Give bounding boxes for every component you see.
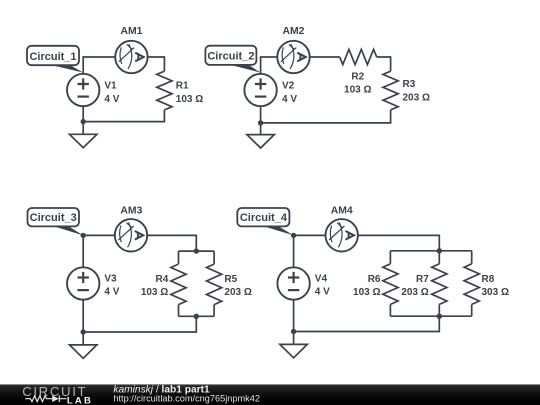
svg-text:4 V: 4 V <box>315 286 330 297</box>
voltage source V2 <box>244 74 276 106</box>
svg-text:Circuit_2: Circuit_2 <box>207 51 254 63</box>
svg-text:R5: R5 <box>224 274 237 285</box>
svg-text:103 Ω: 103 Ω <box>176 94 203 105</box>
wire parallel top bar C3 <box>179 250 215 252</box>
wire R5 top stub <box>213 251 215 264</box>
net flag Circuit_2 <box>205 46 260 73</box>
resistor R6 <box>383 264 398 305</box>
voltage source V4 <box>277 267 309 299</box>
wire R2 to R3 <box>377 57 391 71</box>
wire R5 bottom stub <box>213 305 215 317</box>
logo resistor-diode line <box>25 395 66 402</box>
wire AM2 to R2 <box>310 56 340 58</box>
svg-text:V2: V2 <box>282 81 295 92</box>
node C2 ground junction <box>258 120 263 125</box>
ammeter AM2 <box>277 41 309 73</box>
wire R7 top stub <box>438 251 440 264</box>
svg-text:Circuit_3: Circuit_3 <box>30 212 77 224</box>
wire node to AM3 <box>83 234 115 236</box>
ground C2 <box>247 135 274 148</box>
svg-text:4 V: 4 V <box>104 94 119 105</box>
wire parallel bottom bar C4 <box>390 315 471 317</box>
wire R8 bottom stub <box>471 304 473 316</box>
net flag Circuit_1 <box>27 46 83 73</box>
svg-text:R6: R6 <box>368 274 381 285</box>
net flag Circuit_3 <box>28 208 84 235</box>
wire AM3 to parallel top C3 <box>147 235 196 251</box>
svg-text:AM3: AM3 <box>120 205 142 216</box>
wire V3 bottom to ground C3 <box>82 300 84 345</box>
svg-text:R2: R2 <box>351 71 364 82</box>
wire parallel bottom to rail C4 <box>294 316 440 331</box>
wire parallel bottom to rail C3 <box>83 316 196 332</box>
wire R6 top stub <box>389 251 391 264</box>
ground C1 <box>70 134 97 147</box>
resistor R7 <box>432 264 447 305</box>
wire node to AM4 <box>294 234 326 236</box>
node C1 ground junction <box>81 119 86 124</box>
wire V1 bottom to ground C1 <box>82 106 84 134</box>
ground C4 <box>280 344 307 357</box>
svg-text:203 Ω: 203 Ω <box>224 287 251 298</box>
svg-text:R1: R1 <box>176 81 189 92</box>
svg-text:V4: V4 <box>315 273 328 284</box>
wire V4 top wire <box>293 235 295 267</box>
svg-text:LAB: LAB <box>67 396 93 405</box>
resistor R8 <box>464 264 479 305</box>
node C3 ground junction <box>81 329 86 334</box>
wire V4 bottom to ground C4 <box>293 300 295 345</box>
ammeter AM1 <box>115 41 147 73</box>
wire R3 to bottom rail C2 <box>261 110 391 123</box>
wire AM4 to parallel top C4 <box>358 235 440 250</box>
wire R8 top stub <box>471 251 473 264</box>
voltage source V3 <box>67 267 99 299</box>
svg-text:4 V: 4 V <box>282 94 297 105</box>
resistor R5 <box>207 264 222 305</box>
wire V2 bottom to ground C2 <box>260 106 262 134</box>
wire R4 top stub <box>178 251 180 264</box>
svg-text:103 Ω: 103 Ω <box>353 287 380 298</box>
svg-text:303 Ω: 303 Ω <box>482 287 509 298</box>
wire V1 top to AM1 <box>83 57 115 74</box>
ammeter AM3 <box>115 219 147 251</box>
svg-text:203 Ω: 203 Ω <box>401 287 428 298</box>
resistor R1 <box>157 71 172 110</box>
wire R7 bottom stub <box>438 304 440 316</box>
node C4 parallel top node <box>437 248 442 253</box>
svg-text:AM1: AM1 <box>121 26 143 37</box>
node C3 parallel top node <box>194 248 199 253</box>
resistor R2 <box>340 49 377 64</box>
node C4 flag node <box>291 233 296 238</box>
ammeter AM4 <box>326 219 358 251</box>
svg-text:203 Ω: 203 Ω <box>403 92 430 103</box>
svg-text:Circuit_4: Circuit_4 <box>240 212 288 224</box>
svg-text:V1: V1 <box>104 81 117 92</box>
wire parallel top bar C4 <box>390 250 471 252</box>
wire parallel bottom bar C3 <box>179 315 215 317</box>
svg-text:V3: V3 <box>104 273 117 284</box>
svg-text:Circuit_1: Circuit_1 <box>29 51 76 63</box>
node C3 parallel bottom node <box>194 314 199 319</box>
svg-text:R4: R4 <box>156 274 169 285</box>
svg-text:103 Ω: 103 Ω <box>141 287 168 298</box>
node C4 ground junction <box>291 329 296 334</box>
resistor R4 <box>171 264 186 305</box>
svg-text:R7: R7 <box>416 274 429 285</box>
footer bar <box>0 384 540 405</box>
net flag Circuit_4 <box>237 208 293 235</box>
svg-text:4 V: 4 V <box>104 286 119 297</box>
wire V3 top wire <box>82 235 84 267</box>
svg-text:R3: R3 <box>403 79 416 90</box>
wire AM1 to R1 <box>148 57 165 71</box>
svg-text:R8: R8 <box>482 274 495 285</box>
wire R1 to bottom rail C1 <box>83 110 164 122</box>
resistor R3 <box>383 71 398 110</box>
wire R4 bottom stub <box>178 305 180 317</box>
voltage source V1 <box>67 74 99 106</box>
node C3 flag node <box>81 233 86 238</box>
ground C3 <box>70 345 97 358</box>
wire V2 top to AM2 <box>261 57 278 74</box>
svg-text:AM2: AM2 <box>283 26 305 37</box>
svg-text:AM4: AM4 <box>331 205 353 216</box>
node C4 parallel bottom node <box>437 314 442 319</box>
svg-text:http://circuitlab.com/cng765jn: http://circuitlab.com/cng765jnpmk42 <box>113 394 260 404</box>
svg-text:103 Ω: 103 Ω <box>344 84 371 95</box>
wire R6 bottom stub <box>389 304 391 316</box>
